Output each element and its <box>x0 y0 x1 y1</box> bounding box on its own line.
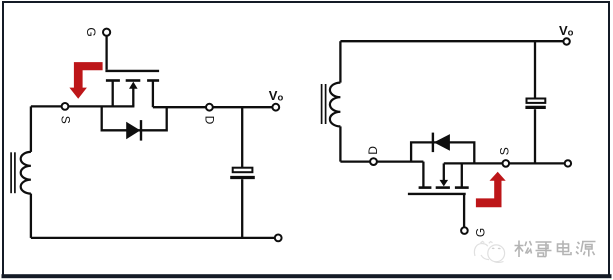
terminal G1 circle <box>103 29 110 36</box>
transformer T1 core <box>11 152 15 193</box>
terminal Vo2 circle <box>563 38 569 44</box>
wire: gate lead Q2 <box>463 194 465 227</box>
node D2 circle <box>370 158 377 165</box>
border bottom bar <box>2 274 612 278</box>
gate plate Q2 <box>408 193 466 195</box>
node S1 circle <box>62 103 69 110</box>
channel bar drain Q2 <box>419 186 432 189</box>
wire: body stem Q1 <box>132 88 134 107</box>
wire: drain leg Q1 <box>152 81 154 108</box>
wire: drain leg Q2 <box>422 162 424 188</box>
wire: source leg Q2 <box>461 163 463 187</box>
channel bar drain Q1 <box>147 79 159 82</box>
node D1 circle <box>206 104 213 111</box>
wire: body diode loop D2 <box>411 142 474 163</box>
wire: D rail to Vo <box>153 106 273 108</box>
capacitor C2 top leg <box>534 41 536 98</box>
channel bar body Q1 <box>126 79 141 82</box>
channel bar source Q1 <box>106 79 120 82</box>
svg-text:S: S <box>498 147 512 155</box>
diode D1 triangle <box>126 122 140 140</box>
body arrow Q1 <box>129 82 138 89</box>
char 哥 <box>536 242 552 257</box>
char 松 <box>515 241 524 258</box>
terminal bottom-right circle <box>275 235 282 242</box>
red current arrow right <box>476 172 506 208</box>
wire: source leg Q1 <box>112 81 114 107</box>
svg-text:G: G <box>473 228 487 237</box>
body arrow Q2 <box>440 180 449 187</box>
wire: S rail <box>31 105 134 107</box>
svg-text:Vo: Vo <box>269 88 284 103</box>
transformer T1 winding <box>21 152 31 194</box>
svg-text:D: D <box>202 116 216 125</box>
wire: bottom rail <box>31 237 275 239</box>
watermark mascot icon <box>474 241 504 262</box>
capacitor C1 plates <box>233 168 253 173</box>
channel bar body Q2 <box>436 186 450 189</box>
wire: top rail to Vo <box>340 40 563 42</box>
terminal S2-right circle <box>565 160 571 166</box>
svg-text:G: G <box>84 27 98 36</box>
wire: gate lead Q1 <box>105 36 107 70</box>
diode D2 triangle <box>434 134 450 151</box>
wire: body diode loop D1 <box>102 106 167 130</box>
capacitor C2 plates <box>527 99 546 103</box>
svg-text:S: S <box>58 116 72 124</box>
node S2 circle <box>503 160 510 167</box>
channel bar source Q2 <box>455 186 469 189</box>
transformer T2 winding <box>330 83 341 127</box>
gate plate Q1 <box>105 70 159 72</box>
terminal G2 circle <box>461 227 468 234</box>
capacitor C1 top leg <box>241 107 243 167</box>
wire: body stem Q2 <box>443 163 445 181</box>
wire: D rail right circuit <box>340 160 423 162</box>
wire: right-left vertical upper <box>339 41 341 82</box>
terminal Vo1 circle <box>272 104 279 111</box>
diode D2 cathode bar <box>432 133 434 153</box>
watermark text 松哥电源 (vector strokes) <box>515 241 596 258</box>
char 电 <box>558 241 572 255</box>
svg-text:Vo: Vo <box>559 23 574 38</box>
capacitor C2 bottom leg <box>534 109 536 163</box>
red current arrow left <box>69 62 102 99</box>
diode D1 cathode bar <box>140 120 142 141</box>
wire: left vertical lower <box>30 194 32 238</box>
wire: S rail right circuit <box>444 162 565 164</box>
svg-text:D: D <box>366 146 380 155</box>
wire: right-left vertical lower <box>339 126 341 161</box>
capacitor C1 bottom leg <box>241 179 243 238</box>
wire: left vertical (transformer branch) <box>30 106 32 151</box>
char 源 <box>576 242 580 254</box>
transformer T2 core <box>322 84 326 124</box>
